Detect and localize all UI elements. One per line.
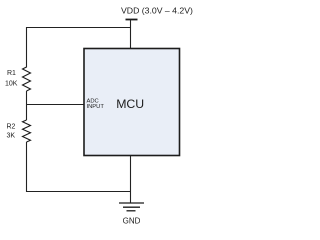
- wire top rail: [26, 27, 131, 29]
- wire ADC tap to MCU pin: [26, 104, 85, 106]
- wire bottom rail: [26, 191, 131, 193]
- resistor R1: [23, 67, 31, 91]
- svg-text:GND: GND: [123, 216, 141, 225]
- wire left rail to R1: [26, 27, 28, 68]
- ground symbol: [119, 203, 144, 211]
- svg-text:VDD (3.0V – 4.2V): VDD (3.0V – 4.2V): [121, 6, 193, 16]
- wire MCU bottom to ground: [130, 156, 132, 204]
- MCU U1 block: [84, 49, 180, 156]
- svg-text:R2: R2: [7, 124, 16, 131]
- svg-text:INPUT: INPUT: [87, 104, 105, 110]
- wire VDD vertical to MCU top: [130, 20, 132, 49]
- power symbol VDD: [126, 19, 138, 21]
- wire R1 to junction to R2: [26, 91, 28, 120]
- wire R2 to bottom rail: [26, 142, 28, 192]
- svg-text:10K: 10K: [5, 81, 18, 88]
- svg-text:MCU: MCU: [116, 97, 144, 111]
- svg-text:3K: 3K: [7, 133, 16, 140]
- svg-text:R1: R1: [7, 70, 16, 77]
- pin label ADC INPUT: [87, 98, 105, 110]
- resistor R2: [23, 120, 31, 142]
